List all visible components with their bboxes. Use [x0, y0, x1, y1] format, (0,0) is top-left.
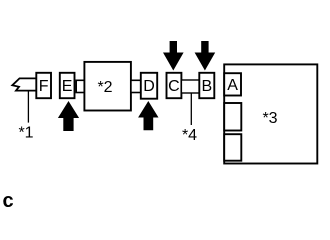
svg-text:D: D: [143, 78, 155, 95]
svg-text:*1: *1: [18, 125, 33, 142]
svg-text:*4: *4: [182, 127, 197, 144]
svg-text:*2: *2: [97, 79, 112, 96]
svg-text:A: A: [227, 77, 238, 94]
svg-text:C: C: [168, 78, 180, 95]
svg-text:F: F: [39, 78, 49, 95]
svg-text:c: c: [3, 190, 14, 210]
svg-text:E: E: [62, 78, 73, 95]
svg-text:*3: *3: [262, 110, 277, 127]
svg-text:B: B: [201, 78, 212, 95]
